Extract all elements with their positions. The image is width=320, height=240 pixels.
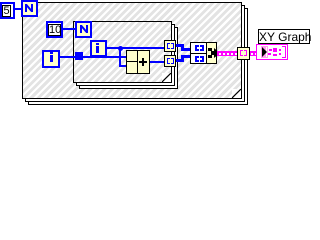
for-loop FL1 (outer) back frame 1 [25,5,245,102]
wire W6: junction to add node bottom input [119,65,128,67]
wire W1: constant 5 to outer N [14,8,22,10]
for-loop FL2 corner fold [162,73,171,82]
cluster wire W10: bundle to outer tunnel [217,51,237,56]
cluster wire W11: outer tunnel to XY Graph terminal [249,51,257,56]
plus sign [139,58,147,66]
for-loop FL1 (outer) back frame 2 [28,8,248,105]
label: XY Graph [258,29,310,44]
for-loop FL1 (outer) main frame [22,2,242,99]
array glyph cell 1 [195,45,197,51]
tunnel T4: outer loop right border (cluster array) [237,47,250,60]
bundle function U2 [190,42,217,64]
numeric constant 10 [46,21,63,38]
wire W4: inner i to top tunnel [106,47,165,49]
tunnel T3: auto-indexing tunnel (bottom, inner loop right border) [164,55,176,67]
count terminal N (outer loop) [21,0,38,17]
pink block with arrow [261,46,268,58]
tunnel T1: solid tunnel on inner loop left border [75,52,83,60]
for-loop FL2 (inner) back frame 1 [76,24,175,86]
wire W5: junction vertical drop [119,48,121,67]
for-loop FL2 (inner) main frame [73,21,172,83]
wire W3: outer i to add node (lower horizontal run) [59,56,127,58]
junction J1 [118,46,123,51]
input cell 2 [191,54,207,63]
type glyphs [269,49,272,51]
input cell 1 [191,43,207,54]
add function U1 (compound arithmetic) [126,50,150,74]
count terminal N (inner loop) [75,21,92,38]
array glyph cell 2 [195,56,197,62]
array wire W8: top tunnel to bundle (upper) [176,44,184,47]
wire W2: constant 10 to inner N [62,28,76,30]
bundle arrow icon [207,48,221,59]
iteration terminal i (inner loop) [90,40,107,57]
for-loop FL1 corner fold [232,89,241,98]
tunnel T2: auto-indexing tunnel (top, inner loop right border) [164,40,176,52]
numeric constant 5 [0,2,15,19]
for-loop FL2 (inner) back frame 2 [79,27,178,89]
iteration terminal i (outer loop) [42,50,60,68]
array wire W9: bottom tunnel to bundle (lower) [176,59,184,62]
indicator terminal XY Graph [256,44,288,60]
wire W7: add node output to bottom tunnel [149,61,165,63]
